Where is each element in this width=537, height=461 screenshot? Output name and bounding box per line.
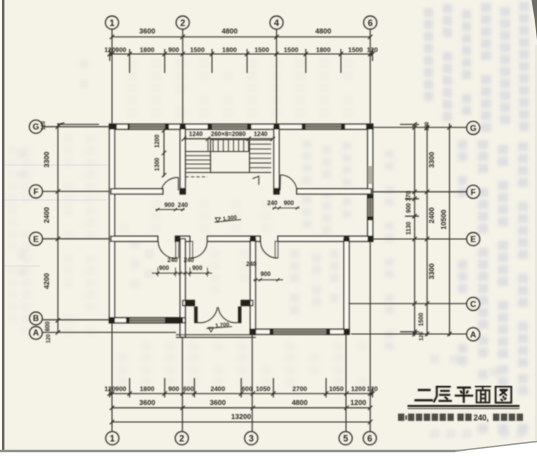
right axis G extension line	[373, 126, 467, 128]
svg-text:1200: 1200	[155, 134, 161, 148]
svg-text:2400: 2400	[42, 207, 51, 223]
svg-text:1500: 1500	[190, 47, 205, 54]
entry double door right leaf	[238, 307, 241, 323]
right overall vertical dimension line	[449, 123, 451, 336]
svg-text:1: 1	[109, 18, 114, 28]
axis circle numbers top	[109, 18, 372, 28]
left axis G extension line	[43, 126, 110, 128]
right dim ticks main line	[425, 125, 429, 336]
entry double door left arc	[197, 307, 217, 322]
axis 6 extension line bottom	[369, 241, 371, 431]
svg-text:900: 900	[261, 271, 272, 278]
wall E axis 1 to door	[111, 236, 158, 241]
axis circle 6 bottom	[363, 432, 376, 445]
faint horizontal scan lines	[0, 165, 108, 266]
door dim line F-left	[156, 208, 185, 211]
svg-text:1200: 1200	[350, 398, 366, 407]
svg-text:260×8=2080: 260×8=2080	[211, 131, 246, 138]
title char mian	[475, 386, 491, 402]
axis circle 2 top	[176, 16, 189, 29]
svg-text:900: 900	[168, 47, 179, 54]
left axis B extension line	[43, 319, 110, 321]
stair side rotated dim labels	[155, 134, 161, 171]
note line tiny glyph blocks	[398, 414, 523, 421]
svg-text:4200: 4200	[42, 273, 51, 289]
stair landing edge	[186, 172, 272, 174]
title double underline	[408, 405, 520, 409]
black jamb left of window W1	[128, 124, 131, 129]
svg-text:1130: 1130	[407, 221, 413, 235]
svg-text:2400: 2400	[427, 207, 436, 223]
page bottom edge	[0, 442, 537, 461]
axis circle G right	[467, 121, 480, 134]
left axis A extension line	[43, 331, 176, 333]
black end of stair wall axis 2 at F	[180, 188, 186, 194]
right axis F extension line	[373, 191, 467, 193]
note 240 digits	[474, 414, 489, 423]
svg-text:240,: 240,	[474, 414, 489, 423]
svg-text:120: 120	[41, 121, 47, 130]
top dim ticks main	[110, 35, 373, 39]
svg-text:E: E	[470, 234, 476, 244]
top exterior wall axes 1-6	[109, 124, 372, 129]
top sub dimension line	[110, 53, 373, 55]
title char ping	[455, 388, 473, 403]
black jamb right of window W2	[247, 124, 251, 129]
black corner fill top-right	[366, 124, 373, 129]
wall E door2 to door3	[207, 236, 260, 241]
left axis F extension line	[43, 190, 110, 192]
svg-text:1500: 1500	[348, 47, 363, 54]
axis 2 extension line bottom	[181, 337, 183, 431]
bottom sub dim labels	[104, 386, 378, 393]
svg-text:13200: 13200	[231, 412, 251, 421]
svg-text:3600: 3600	[139, 27, 155, 36]
window W7 right wall upper	[368, 166, 373, 184]
black jambs of window W6	[270, 329, 274, 334]
page left edge dark line	[0, 0, 4, 461]
right axis C extension line	[349, 303, 467, 305]
top main dim labels	[139, 27, 331, 36]
wall E pier between doors at axis 2	[175, 236, 189, 241]
window W6 wall A	[273, 330, 326, 335]
wall B bottom of left room	[109, 318, 185, 323]
black right wall jambs of window W4	[368, 195, 373, 199]
right rotated dim labels sub	[407, 122, 431, 341]
svg-text:1240: 1240	[254, 131, 268, 138]
bleed-through text column right margin 6	[519, 2, 529, 131]
window W3 top wall	[306, 124, 341, 129]
svg-text:5: 5	[343, 433, 348, 443]
svg-text:4800: 4800	[315, 27, 331, 36]
axis circle G left	[29, 120, 42, 133]
black junction top wall axis 4	[274, 124, 280, 129]
black jamb left of window W2	[208, 124, 212, 129]
right axis A extension line	[351, 333, 467, 335]
axis circle letters left	[33, 122, 40, 338]
axis circle F right	[467, 185, 480, 198]
black junction E at axis 2 pier	[175, 236, 180, 241]
black jamb left of window W3	[302, 124, 306, 129]
door D1 swing arc	[162, 177, 179, 188]
svg-text:4800: 4800	[292, 398, 308, 407]
axis 6 extension line top	[369, 29, 371, 124]
porch slab edge double line	[176, 335, 256, 338]
right main vertical dimension line	[426, 123, 428, 336]
svg-text:A: A	[470, 329, 476, 339]
bottom middle dim ticks	[110, 406, 373, 410]
axis circle E left	[29, 232, 42, 245]
stair hall wall axis 4 upper	[274, 127, 279, 194]
axis 5 extension line bottom	[345, 334, 347, 431]
svg-text:120: 120	[419, 332, 425, 341]
stair hall wall axis 2 upper	[180, 127, 185, 194]
bottom overall dimension line	[112, 421, 370, 423]
door dim labels E3	[246, 261, 271, 278]
black jamb right of window W1	[165, 124, 169, 129]
svg-text:F: F	[33, 186, 38, 196]
svg-text:2: 2	[180, 18, 185, 28]
black end of stair wall axis 4 at F	[274, 188, 280, 194]
wall A bottom of right room	[250, 329, 349, 334]
black jamb left of window W5	[126, 318, 130, 323]
window W4 right wall	[368, 199, 373, 217]
bottom sub extension stubs	[110, 378, 373, 398]
bleed-through faint columns inside plan	[302, 140, 311, 228]
svg-text:900: 900	[159, 265, 170, 272]
level marker 1.300	[215, 215, 242, 223]
svg-text:240: 240	[267, 200, 278, 207]
svg-text:G: G	[33, 122, 40, 132]
axis 3 extension line bottom	[251, 334, 253, 431]
svg-text:3300: 3300	[427, 152, 436, 168]
svg-text:6: 6	[368, 18, 373, 28]
wall C entry hall front right stub	[241, 300, 253, 305]
window W2 top wall stair	[212, 124, 247, 129]
svg-text:120: 120	[104, 47, 115, 54]
axis 1 extension line top	[111, 29, 113, 124]
svg-text:900: 900	[407, 202, 413, 213]
axis circle 2 bottom	[175, 432, 188, 445]
svg-text:3: 3	[249, 433, 254, 443]
svg-text:2700: 2700	[292, 386, 307, 393]
axis circle 4 top	[270, 16, 283, 29]
svg-text:240: 240	[178, 202, 189, 209]
svg-text:120: 120	[425, 122, 431, 131]
title 二层平面图 stroke glyphs	[414, 386, 511, 402]
svg-text:2: 2	[179, 433, 184, 443]
bottom overall dim label	[231, 412, 251, 421]
svg-text:E: E	[33, 234, 39, 244]
bleed-through text column right margin 1	[424, 8, 433, 101]
door D2 top-right room panel	[279, 175, 281, 191]
svg-text:F: F	[471, 187, 476, 197]
svg-text:600: 600	[46, 321, 52, 332]
svg-text:1050: 1050	[329, 386, 344, 393]
svg-text:1300: 1300	[155, 157, 161, 171]
entry double door right arc	[218, 307, 238, 323]
stair dim ticks	[182, 137, 275, 141]
bottom overall dim ticks	[110, 420, 373, 424]
interior wall F left segment	[111, 189, 163, 194]
door dim labels F-right	[267, 200, 294, 207]
svg-text:1050: 1050	[256, 386, 271, 393]
svg-text:900: 900	[115, 47, 126, 54]
svg-text:1500: 1500	[419, 312, 425, 326]
bleed-through text columns right lower	[478, 140, 488, 329]
svg-text:1800: 1800	[140, 47, 155, 54]
svg-text:3600: 3600	[210, 398, 226, 407]
svg-text:3300: 3300	[427, 263, 436, 279]
stair upper flight tread lines	[208, 140, 249, 152]
page right edge shading	[535, 45, 537, 440]
stair width dim labels	[189, 131, 268, 138]
entry hall wall axis 2 lower	[180, 239, 185, 337]
door D4 entry hall panel	[190, 241, 193, 258]
svg-text:10500: 10500	[439, 210, 448, 230]
stair well rectangle	[211, 140, 250, 173]
entry double door left leaf	[195, 307, 198, 323]
black corner fill top-left	[109, 124, 116, 129]
right inner sub dimension line	[414, 123, 416, 336]
svg-text:1500: 1500	[284, 47, 299, 54]
left 120 arrow line at G	[58, 123, 99, 125]
axis circle 1 bottom	[106, 432, 119, 445]
bleed-through text column right margin 4	[481, 3, 491, 132]
left vertical dimension line	[57, 123, 59, 333]
top dim ticks sub	[108, 52, 375, 56]
svg-text:120: 120	[367, 47, 378, 54]
svg-text:1800: 1800	[316, 47, 331, 54]
title char ceng	[434, 387, 452, 403]
right dim ticks overall line	[447, 125, 451, 336]
black junction wall A at axis 3	[250, 329, 256, 334]
bottom sub dimension line	[110, 393, 373, 395]
axis circle numbers bottom	[110, 433, 373, 443]
right exterior wall axis 6	[368, 124, 373, 241]
door D3 bottom-left room panel	[176, 241, 179, 257]
door D5 swing arc	[261, 242, 278, 258]
svg-text:3600: 3600	[139, 398, 155, 407]
door D4 swing arc	[193, 242, 208, 258]
svg-text:900: 900	[168, 386, 179, 393]
window W5 wall B	[130, 318, 165, 323]
black entry hall front stub right	[241, 300, 250, 305]
stair left flight tread lines	[186, 152, 211, 169]
left axis E extension line	[43, 238, 110, 240]
stair width dimension line	[184, 138, 273, 140]
stair direction flag	[253, 176, 259, 185]
svg-text:1200: 1200	[351, 386, 366, 393]
level marker 1.700	[207, 322, 233, 332]
stair cut dashed line	[186, 176, 208, 178]
axis circle 6 top	[364, 16, 377, 29]
svg-text:900: 900	[164, 202, 175, 209]
svg-text:3300: 3300	[42, 152, 51, 168]
axis circle 5 bottom	[339, 432, 352, 445]
wall axis 5	[344, 239, 349, 334]
window W1 top wall	[130, 124, 165, 129]
axis circle C right	[467, 297, 480, 310]
svg-text:1500: 1500	[254, 47, 269, 54]
svg-text:120: 120	[367, 386, 378, 393]
black corner right wall at E	[368, 236, 373, 241]
black junction wall A at axis 5	[344, 329, 350, 334]
svg-text:C: C	[470, 299, 476, 309]
svg-text:900: 900	[192, 265, 203, 272]
door dim line E3	[254, 278, 284, 281]
black junction E at axis 3	[250, 236, 256, 241]
page top-right corner shadow	[532, 0, 537, 40]
door D1 top-left room panel	[177, 178, 179, 191]
bottom dim ticks sub	[108, 391, 375, 395]
top main dimension line	[112, 36, 370, 38]
bleed-through text column right margin 2	[443, 4, 452, 121]
bleed-through text column right margin 5	[500, 7, 510, 124]
svg-text:B: B	[33, 313, 39, 323]
black jamb right of window W3	[341, 124, 345, 129]
title char er	[414, 390, 432, 400]
axis circle 1 top	[105, 16, 118, 29]
svg-text:240: 240	[167, 257, 178, 264]
black junction E at axis 5	[344, 236, 350, 241]
left dim ticks	[56, 124, 60, 334]
svg-text:240: 240	[184, 257, 195, 264]
door dim line E pair	[152, 268, 212, 277]
door D5 bottom-right room panel	[275, 241, 278, 257]
door D2 swing arc	[280, 175, 297, 190]
left small dim labels 600 120	[41, 121, 52, 343]
title char tu	[496, 387, 512, 403]
door dim line F-right	[273, 206, 300, 209]
stair side dim ticks	[162, 128, 166, 177]
right axis E extension line	[373, 238, 467, 240]
axis circle A right	[467, 328, 480, 341]
svg-text:A: A	[33, 328, 39, 338]
svg-text:370: 370	[407, 191, 413, 202]
svg-text:600: 600	[183, 386, 194, 393]
stair well inner landing line	[211, 151, 250, 153]
axis 2 extension line top	[182, 29, 184, 124]
black corner fill left wall at B	[109, 318, 114, 323]
svg-text:G: G	[470, 123, 477, 133]
svg-text:6: 6	[367, 433, 372, 443]
right dim ticks sub line	[412, 122, 416, 336]
svg-text:1240: 1240	[189, 131, 203, 138]
entry hall wall axis 3	[250, 239, 255, 334]
black pier wall B right of window W5	[165, 318, 183, 323]
svg-text:120: 120	[104, 386, 115, 393]
wall E door3 to right corner	[278, 236, 373, 241]
black entry hall front stub left	[185, 300, 194, 305]
door D3 swing arc	[158, 242, 175, 259]
svg-text:1800: 1800	[140, 386, 155, 393]
door dim labels E pair	[159, 257, 203, 272]
right rotated dim labels main	[427, 152, 448, 279]
svg-text:900: 900	[284, 200, 295, 207]
stair right flight tread lines	[250, 140, 272, 168]
axis 4 extension line top	[276, 29, 278, 124]
axis 1 extension line bottom	[111, 323, 113, 432]
svg-text:900: 900	[115, 386, 126, 393]
svg-text:240: 240	[246, 261, 257, 268]
interior wall F right segment	[297, 189, 372, 194]
axis circle A left	[30, 327, 43, 340]
top sub extension stubs	[110, 49, 373, 73]
svg-text:4: 4	[274, 18, 279, 28]
svg-text:4800: 4800	[222, 27, 238, 36]
svg-text:600: 600	[241, 386, 252, 393]
svg-text:2400: 2400	[210, 386, 225, 393]
svg-text:1: 1	[110, 433, 115, 443]
bottom middle dim labels	[139, 398, 366, 407]
top sub dim labels	[104, 47, 378, 54]
axis circle letters right	[470, 123, 477, 339]
bleed-through text column right margin 3	[462, 10, 471, 115]
right sub extension stubs	[400, 124, 419, 331]
axis circle E right	[467, 233, 480, 246]
axis circle F left	[29, 185, 42, 198]
svg-text:120: 120	[46, 334, 52, 343]
left exterior wall axis 1	[109, 124, 114, 323]
svg-text:1800: 1800	[222, 47, 237, 54]
wall C entry hall front left stub	[183, 300, 195, 305]
left rotated dim labels	[42, 152, 51, 290]
axis circle 3 bottom	[245, 432, 258, 445]
black junction top wall axis 2	[180, 124, 186, 129]
axis circle B left	[30, 312, 43, 325]
bottom middle dimension line	[112, 407, 370, 409]
stair side vertical dimension line	[163, 130, 165, 177]
door dim labels F-left	[164, 202, 188, 209]
